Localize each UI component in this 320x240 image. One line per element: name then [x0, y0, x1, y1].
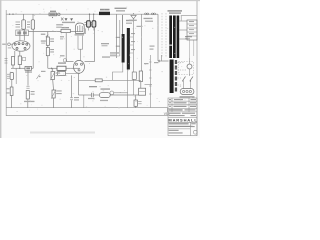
svg-text:MARSHALL: MARSHALL — [168, 117, 197, 122]
